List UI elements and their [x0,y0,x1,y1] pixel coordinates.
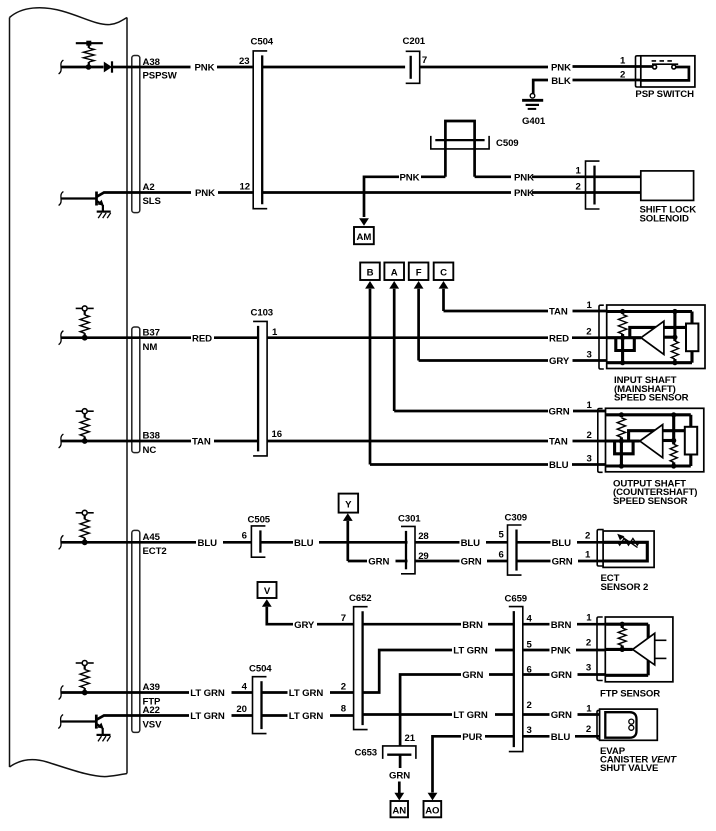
ground at Q2 emitter [97,735,111,742]
arrow and wire from A marker [389,281,399,411]
off-page marker box AN [391,801,409,817]
svg-text:5: 5 [499,529,505,540]
svg-text:23: 23 [239,56,249,67]
svg-text:AO: AO [425,805,440,816]
svg-text:7: 7 [341,613,346,624]
wire C652 pin 7 to C659 pin 4 (BRN) [363,620,515,631]
svg-text:GRY: GRY [294,620,315,631]
wire C201 to PSP switch (PNK) [420,62,641,73]
svg-text:PNK: PNK [514,188,534,199]
svg-text:2: 2 [586,724,591,735]
svg-text:GRN: GRN [462,670,483,681]
svg-text:8: 8 [341,703,347,714]
connector bracket at ECT sensor 2 [597,530,604,566]
C509 jumper loop [445,121,474,177]
svg-text:LT GRN: LT GRN [289,711,324,722]
svg-text:28: 28 [418,531,429,542]
svg-text:RED: RED [192,333,212,344]
svg-text:BRN: BRN [462,620,483,631]
arrow and wire from F marker [414,281,424,361]
transistor Q1 (SLS driver, NPN) [59,192,127,212]
svg-text:16: 16 [272,429,282,440]
output shaft speed sensor (internal circuit) [598,408,704,507]
svg-text:1: 1 [586,703,592,714]
connector C652 [349,593,372,730]
pin A38 PSPSW [143,57,178,82]
svg-text:4: 4 [242,681,248,692]
PSP switch box [635,56,694,100]
off-page marker box AM [354,227,374,244]
svg-text:GRN: GRN [461,557,482,568]
shift lock solenoid box [640,171,697,225]
svg-text:1: 1 [620,55,626,66]
off-page marker box V [258,582,277,598]
off-page arrow AM [359,218,369,226]
off-page arrow Y with wire [343,513,353,561]
svg-text:1: 1 [587,300,593,311]
off-page arrow AO [428,793,438,801]
wire A39 row inside module [59,686,127,700]
wire C504 pin12 to shift lock solenoid pin 2 (PNK) [262,188,641,199]
svg-text:GRN: GRN [551,670,572,681]
connector C309 [505,512,528,575]
arrow and wire from B marker [365,281,375,465]
connector C103 [251,308,274,456]
connector C653 [355,746,416,759]
svg-text:C301: C301 [398,514,421,525]
svg-text:BLU: BLU [549,460,569,471]
wire C653 to AN (GRN) [389,755,410,793]
svg-text:BLU: BLU [294,538,314,549]
svg-text:SPEED SENSOR: SPEED SENSOR [613,496,688,507]
svg-text:20: 20 [236,704,246,715]
svg-text:C309: C309 [505,512,528,523]
svg-text:2: 2 [576,181,581,192]
diode D1 (anode left) [104,61,127,72]
svg-text:AM: AM [357,232,372,243]
ECT sensor 2 box [601,531,655,593]
wire C504 pin 4 to C652 pin 2 (LT GRN) [262,688,354,699]
off-page marker box F [409,263,429,281]
wire PUR branch to C659 pin 3 [433,732,515,793]
svg-text:PNK: PNK [195,63,215,74]
wire A45 to C505 (BLU) [127,538,251,549]
wire A38 row inside module [59,60,104,74]
svg-text:A: A [391,267,398,278]
wire GRN branch to C659 pin 6 [400,670,514,746]
pull-up sensing resistor (ECT2 row) [76,510,94,545]
connector C509 [431,136,519,149]
svg-text:C652: C652 [349,593,372,604]
wire C309 to ECT sensor 2 pin 2 (BLU) [517,538,604,549]
internal pull-up resistor with diode (PSPSW driver) [76,41,103,70]
svg-text:2: 2 [527,700,532,711]
connector C505 [248,514,271,557]
svg-text:NM: NM [143,342,158,353]
off-page marker box B [360,263,380,281]
connector C504 (top) [251,37,274,209]
wire A39 to C504 pin 4 (LT GRN) [127,688,253,699]
wire C504 pin 20 to C652 pin 8 (LT GRN) [262,711,354,722]
wire C659 pin 5 to FTP sensor pin 2 (PNK) [523,646,606,657]
svg-text:1: 1 [586,612,592,623]
svg-text:VSV: VSV [143,720,163,731]
svg-text:2: 2 [587,430,592,441]
svg-text:SOLENOID: SOLENOID [640,213,689,224]
svg-text:V: V [264,586,271,597]
off-page marker box C [434,263,454,281]
svg-text:3: 3 [587,453,592,464]
ground at Q1 emitter [97,212,111,219]
svg-text:C201: C201 [403,36,426,47]
svg-text:PSP SWITCH: PSP SWITCH [635,89,694,100]
wire C309 pin 6 to ECT sensor 2 pin 1 (GRN) [517,557,604,568]
wire C103 pin16 to output sensor pin 2 (TAN) [267,437,605,448]
svg-text:GRN: GRN [368,557,389,568]
wire C659 pin 6 to FTP sensor pin 3 (GRN) [523,670,606,681]
pin A39 FTP [143,682,162,707]
off-page marker box A [384,263,404,281]
connector C301 [398,514,421,574]
pin B37 NM [143,327,160,353]
wire BLK from PSP switch pin 2 to G401 [533,76,641,94]
svg-text:PNK: PNK [195,188,215,199]
svg-text:TAN: TAN [192,437,211,448]
svg-text:6: 6 [499,549,504,560]
pin A2 SLS [143,182,162,207]
wire B37 to C103 (RED) [127,333,258,344]
svg-text:3: 3 [527,725,532,736]
svg-text:TAN: TAN [549,307,568,318]
svg-text:GRY: GRY [549,356,570,367]
svg-text:3: 3 [586,663,591,674]
svg-text:1: 1 [576,166,582,177]
connector bracket at FTP sensor [597,617,603,681]
connector bracket at EVAP valve [597,710,603,739]
svg-text:BLK: BLK [551,76,571,87]
svg-text:PSPSW: PSPSW [143,71,178,82]
off-page arrow V with wire to C652 pin 7 (GRY) [262,599,354,631]
svg-text:FTP SENSOR: FTP SENSOR [600,689,660,700]
svg-text:BLU: BLU [551,732,571,743]
svg-text:LT GRN: LT GRN [453,710,488,721]
svg-text:GRN: GRN [549,407,570,418]
pin A45 ECT2 [143,532,167,557]
svg-text:TAN: TAN [549,437,568,448]
wire C509 to solenoid pin 1 (PNK) [475,173,641,184]
svg-text:2: 2 [586,327,591,338]
svg-text:C659: C659 [505,594,528,605]
arrow and wire from C marker [439,281,449,311]
wire B37 row inside module [59,331,127,345]
FTP sensor box with internal circuit [600,617,673,700]
connector bracket at PSP switch [636,56,641,87]
svg-text:SHUT VALVE: SHUT VALVE [600,763,659,774]
svg-text:1: 1 [585,550,591,561]
svg-text:GRN: GRN [552,557,573,568]
svg-text:7: 7 [422,55,427,66]
connector C659 [505,594,528,752]
wire A38 to C504 (PNK) [127,63,253,74]
wire Y branch to C301 pin 29 (GRN) [348,557,508,568]
svg-text:C505: C505 [248,514,271,525]
svg-text:PUR: PUR [462,732,482,743]
ECM connector bracket (A45/A39/A22) [132,530,140,732]
PSP switch contacts [641,61,689,81]
svg-text:2: 2 [620,70,625,81]
svg-text:2: 2 [586,638,591,649]
svg-text:12: 12 [240,181,250,192]
pin B38 NC [143,431,161,456]
svg-text:SENSOR 2: SENSOR 2 [601,582,649,593]
svg-text:2: 2 [585,530,590,541]
connector C201 [403,36,426,83]
wire A marker to output sensor pin 1 (GRN) [394,407,605,418]
svg-text:BRN: BRN [551,620,572,631]
svg-text:PNK: PNK [551,62,571,73]
svg-text:1: 1 [587,400,593,411]
wire A45 row inside module [59,535,127,549]
wire A22 to C504 pin 20 (LT GRN) [127,711,253,722]
svg-text:LT GRN: LT GRN [289,688,324,699]
svg-text:2: 2 [341,681,346,692]
svg-text:PNK: PNK [551,646,571,657]
pull-up sensing resistor (FTP row) [76,661,94,696]
ground G401 [522,94,546,128]
pin A22 VSV [143,705,163,730]
svg-text:PNK: PNK [514,173,534,184]
svg-text:LT GRN: LT GRN [190,688,225,699]
svg-text:C509: C509 [496,138,519,149]
svg-text:SPEED SENSOR: SPEED SENSOR [614,393,689,404]
svg-text:C504: C504 [249,663,272,674]
branch wire to AM and C509 (PNK) [364,173,445,218]
svg-text:NC: NC [143,445,157,456]
svg-text:F: F [416,267,422,278]
input shaft speed sensor (internal circuit) [599,305,705,404]
wire B marker to output sensor pin 3 (BLU) [370,460,606,471]
off-page marker box AO [424,801,442,817]
wire B38 to C103 (TAN) [127,437,258,448]
svg-text:B: B [367,267,374,278]
svg-text:GRN: GRN [389,771,410,782]
svg-text:BLU: BLU [198,538,218,549]
wire C301 to C309 pin 5 (BLU) [415,538,508,549]
svg-text:6: 6 [242,531,247,542]
wire C504 to C201 (PNK) [262,66,405,69]
wire C652 pin 8 to C659 pin 2 (LT GRN) [363,710,515,721]
wire C103 to input sensor pin 2 (RED) [267,333,607,344]
wire B38 row inside module [59,434,127,448]
wire C marker to input sensor pin 1 (TAN) [444,307,607,318]
transistor Q2 (VSV driver, NPN) [58,715,127,735]
ECM connector bracket (A38/A2) [132,56,140,213]
off-page marker box Y [339,494,359,513]
svg-text:21: 21 [405,733,416,744]
pull-up sensing resistor (NC row) [76,409,94,444]
svg-text:Y: Y [345,499,352,510]
svg-text:C504: C504 [251,37,274,48]
wire C652 pin 2 up to C659 pin 5 (LT GRN) [363,646,515,693]
svg-text:PNK: PNK [400,173,420,184]
pull-up sensing resistor (NM row) [76,306,94,341]
svg-text:G401: G401 [522,116,546,127]
svg-text:AN: AN [392,805,406,816]
wire F marker to input sensor pin 3 (GRY) [419,356,607,367]
connector C504 (bottom) [249,663,272,733]
svg-text:SLS: SLS [143,196,162,207]
wire C659 pin 4 to FTP sensor pin 1 (BRN) [523,620,606,631]
svg-text:3: 3 [587,349,592,360]
svg-text:C653: C653 [355,748,378,759]
connector bracket at shift lock solenoid [586,161,600,209]
wire C659 pin 2 to EVAP valve pin 1 (GRN) [523,710,600,721]
svg-text:C103: C103 [251,308,274,319]
ECM connector bracket (B37/B38) [132,327,140,453]
wire C659 pin 3 to EVAP valve pin 2 (BLU) [523,732,600,743]
wire A2 to C504 pin 12 (PNK) [127,188,253,199]
ECT sensor 2 thermistor [603,534,647,561]
svg-text:GRN: GRN [551,710,572,721]
svg-text:LT GRN: LT GRN [453,646,488,657]
svg-text:C: C [440,267,447,278]
wire C505 to C301 pin 28 (BLU) [260,538,407,549]
svg-text:ECT2: ECT2 [143,546,167,557]
EVAP canister vent shut valve box [600,709,678,774]
off-page arrow AN [394,793,404,801]
svg-text:BLU: BLU [461,538,481,549]
svg-text:RED: RED [549,333,569,344]
svg-text:BLU: BLU [552,538,572,549]
ECM/PCM module outline (torn-edge block) [10,8,128,777]
svg-text:LT GRN: LT GRN [190,711,225,722]
